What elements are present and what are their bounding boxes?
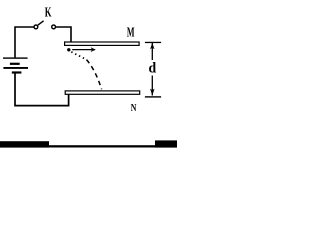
dimension top tick bbox=[145, 42, 161, 43]
battery cell plate short (thick) bbox=[10, 63, 20, 65]
bottom border thin line middle bbox=[49, 145, 155, 147]
battery cell plate long (second +) bbox=[3, 67, 28, 69]
switch blade (open) bbox=[38, 21, 44, 25]
battery cell plate long (top, +) bbox=[3, 57, 28, 58]
svg-text:N: N bbox=[131, 103, 137, 114]
plate N (bottom capacitor plate) bbox=[65, 91, 140, 94]
dimension down arrowhead bbox=[150, 89, 154, 96]
dimension vertical line upper bbox=[151, 43, 153, 60]
trajectory dotted start segment bbox=[71, 52, 86, 60]
bottom border thick bar right bbox=[155, 140, 177, 147]
particle (charged dot) bbox=[67, 48, 70, 51]
bottom border thick bar left bbox=[0, 141, 49, 147]
velocity arrowhead bbox=[91, 47, 96, 52]
battery cell plate short (bottom, -) bbox=[12, 71, 22, 73]
dimension vertical line lower bbox=[151, 76, 153, 96]
wire: switch to top plate M bbox=[56, 27, 71, 43]
velocity arrow line bbox=[72, 49, 95, 51]
plate M (top capacitor plate) bbox=[65, 42, 140, 45]
svg-text:M: M bbox=[127, 26, 135, 41]
wire: battery negative to bottom plate N bbox=[15, 73, 69, 106]
switch left contact circle bbox=[34, 25, 38, 29]
svg-text:K: K bbox=[45, 5, 52, 21]
dimension bottom tick bbox=[145, 96, 161, 97]
dimension up arrowhead bbox=[150, 43, 154, 49]
trajectory dashed parabola bbox=[87, 60, 102, 90]
switch right contact circle bbox=[52, 25, 56, 29]
wire: battery positive to switch (left vertical + top horizontal) bbox=[15, 27, 34, 58]
svg-text:d: d bbox=[149, 60, 157, 77]
